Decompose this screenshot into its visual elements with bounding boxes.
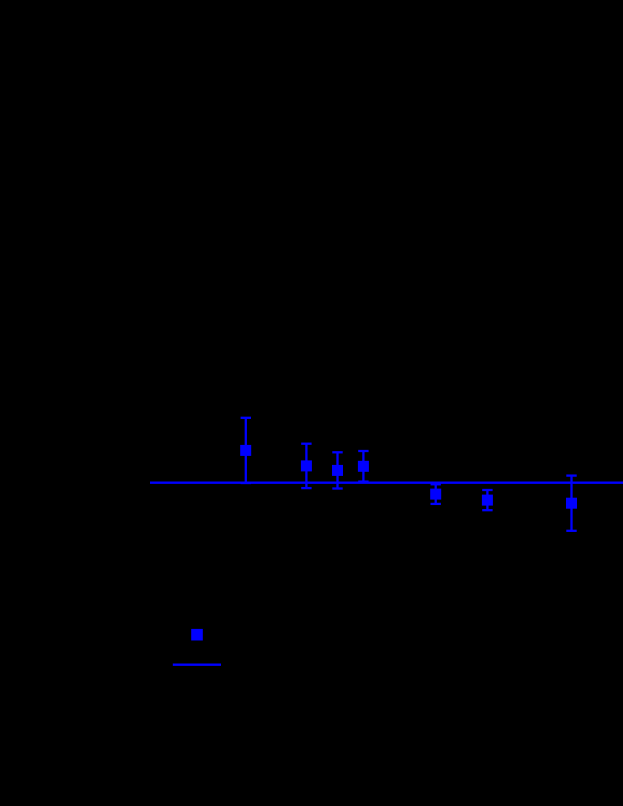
data point 7 error bar bbox=[566, 476, 576, 531]
data point 1 error bar bbox=[241, 418, 251, 483]
data point 3 marker bbox=[332, 465, 343, 476]
data point 2 marker bbox=[301, 460, 312, 471]
data point 4 error bar bbox=[358, 451, 368, 482]
data point 6 marker bbox=[482, 495, 493, 506]
data point 6 error bar bbox=[482, 490, 492, 510]
data point 1 marker bbox=[240, 445, 251, 456]
data point 2 error bar bbox=[301, 444, 311, 488]
legend fit line sample bbox=[173, 664, 221, 666]
data point 7 marker bbox=[566, 498, 577, 509]
data point 4 marker bbox=[358, 461, 369, 472]
data point 5 marker bbox=[430, 489, 441, 500]
fit line bbox=[150, 482, 623, 484]
legend data marker bbox=[191, 629, 203, 641]
data point 3 error bar bbox=[332, 452, 342, 488]
data point 5 error bar bbox=[431, 484, 441, 504]
